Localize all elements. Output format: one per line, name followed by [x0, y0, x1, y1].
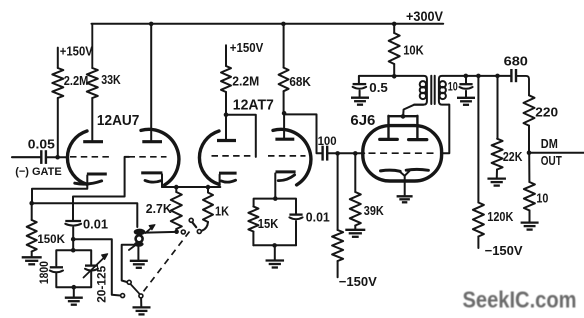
transformer secondary winding	[439, 76, 510, 105]
switch S1a contact right	[197, 230, 201, 234]
wire plate tap to transformer primary	[403, 105, 423, 117]
switch S1b contact upper	[127, 280, 131, 284]
ground under V3 cathode	[397, 195, 413, 197]
svg-text:0.01: 0.01	[83, 218, 108, 232]
node 0.01 bottom branch	[71, 237, 76, 242]
switch S1b arm	[131, 285, 140, 295]
wire 1K bottom to switch contact	[202, 222, 208, 231]
resistor 39K	[354, 153, 356, 192]
node cathode junction 150K	[29, 201, 34, 206]
wire 680 to 220	[516, 76, 529, 95]
node bypass ground junction	[272, 243, 277, 248]
ground under timing loop	[65, 297, 83, 299]
resistor grid return to -150V	[337, 153, 339, 230]
ground under 15K/0.01	[266, 259, 285, 261]
switch S1b pivot	[139, 294, 143, 298]
svg-text:−150V: −150V	[485, 243, 523, 258]
wire plate V2b to 68K	[283, 113, 285, 139]
wire cathode node left to 15K	[254, 199, 276, 207]
wire cap to grid of V1	[47, 156, 69, 158]
switch S1a contact left	[181, 230, 185, 234]
resistor 2.2M plate-grid V2	[225, 45, 227, 66]
resistor 10 output load	[528, 153, 530, 182]
svg-text:10: 10	[536, 191, 548, 206]
capacitor 20-125 variable trimmer	[85, 264, 98, 266]
svg-text:15K: 15K	[258, 216, 279, 231]
plate V2a bar	[217, 139, 236, 142]
wire pot wiper to 2.7K bottom	[142, 231, 177, 234]
wire input (-) gate lead	[12, 156, 40, 158]
node cathode V2b	[273, 196, 278, 201]
svg-text:0.05: 0.05	[28, 138, 55, 152]
wire 10K node left to 0.5 cap	[359, 76, 394, 84]
wire cathode V1a to 150K node	[32, 175, 87, 203]
svg-text:2.2M: 2.2M	[64, 73, 89, 88]
cathode V1a heater hook	[75, 181, 102, 184]
resistor 10K plate supply	[393, 24, 395, 33]
cathode V2a heater hook	[221, 180, 235, 182]
capacitor 0.01 cathode bypass	[289, 213, 302, 215]
node 10K bottom	[392, 74, 397, 79]
node 68K top on +300V rail	[281, 22, 286, 27]
ground under pot	[130, 260, 148, 262]
node plate2 of V1 on +300V rail	[149, 22, 154, 27]
arrow pot wiper	[146, 228, 152, 233]
resistor 150K cathode to ground	[31, 203, 33, 220]
capacitor 0.05 input coupling	[40, 150, 42, 164]
cathode V3 left bar	[381, 170, 401, 171]
svg-text:0.01: 0.01	[306, 210, 330, 224]
svg-text:OUT: OUT	[541, 154, 562, 168]
svg-text:150K: 150K	[37, 232, 65, 246]
resistor 1K cathode bias alt	[207, 187, 209, 193]
svg-text:(−) GATE: (−) GATE	[15, 166, 62, 178]
node 39K	[353, 151, 358, 156]
svg-text:DM: DM	[541, 137, 558, 151]
ground under 10 cap	[457, 97, 475, 99]
wire under pot to switch contact	[122, 245, 136, 282]
wire grid V2a from plate node	[226, 115, 256, 157]
tube V2 12AT7 envelope left arc	[199, 131, 219, 184]
wire plate node to coupling cap	[284, 114, 321, 153]
grid V2b dashed line	[268, 155, 306, 157]
svg-text:+300V: +300V	[406, 9, 443, 24]
svg-text:12AT7: 12AT7	[233, 96, 274, 113]
node input junction with 2.2M	[55, 155, 60, 160]
wire cathode V2b down to 15K node	[274, 173, 276, 198]
grid V1b dashed line	[129, 156, 167, 158]
resistor 68K plate load V2b	[283, 24, 285, 68]
resistor 2.7K cathode bias V1b	[175, 187, 177, 192]
svg-text:1800: 1800	[37, 261, 51, 284]
svg-text:33K: 33K	[101, 72, 121, 87]
transformer primary winding	[394, 76, 427, 105]
tube V1 12AU7 envelope left arc	[67, 131, 87, 184]
capacitor 10 secondary damping	[465, 76, 467, 84]
wire pot lower lead to ground	[137, 246, 139, 260]
svg-text:10: 10	[448, 80, 458, 94]
cathode V1b heater hook	[145, 180, 161, 182]
node 2.2M bottom plate-grid tie	[224, 112, 229, 117]
switch S1a arm	[192, 222, 196, 227]
cathode V2b heater hook	[278, 175, 294, 181]
svg-text:2.2M: 2.2M	[232, 74, 259, 89]
cathode V3 right bar	[406, 168, 428, 172]
wire loop bottom to ground	[73, 287, 75, 296]
wire cathode node to bias pot	[32, 203, 138, 227]
resistor 2.2M grid resistor V1	[57, 48, 59, 68]
wire plate V1b to +300V rail	[150, 24, 152, 140]
node DM OUT junction	[527, 150, 532, 155]
ground under 150K	[22, 256, 42, 258]
potentiometer bias adjust body	[134, 229, 146, 236]
cathode V2b bar	[276, 170, 296, 173]
resistor 15K	[248, 207, 258, 232]
tube V2 12AT7 envelope right arc	[273, 129, 311, 185]
ground under 10 resistor	[521, 221, 539, 223]
svg-text:6J6: 6J6	[350, 112, 375, 129]
cathode V1a bar	[87, 173, 107, 176]
grid V2a dashed line	[212, 155, 251, 157]
node 10K top on +300V rail	[392, 22, 397, 27]
ground under 22K	[487, 177, 506, 179]
wire cathode V1b down to bias rail	[161, 174, 163, 187]
wire secondary bottom to V3 grid	[441, 105, 449, 154]
grid V3 dashed line	[369, 152, 438, 154]
wire grid V1b down lead	[73, 157, 129, 220]
resistor 22K	[497, 76, 499, 139]
capacitor 680 output coupling	[510, 69, 512, 82]
node plate V2b / coupling	[282, 111, 287, 116]
cathode V2a bar	[219, 172, 237, 175]
svg-text:+150V: +150V	[230, 40, 264, 55]
wire junction to ground	[274, 245, 276, 259]
plate V2b bar	[275, 138, 294, 141]
capacitor 0.01 grid timing	[65, 220, 81, 222]
svg-text:22K: 22K	[503, 149, 523, 164]
wire switch pivot to ground	[140, 298, 142, 306]
wire cathode V3 to ground	[404, 176, 406, 195]
cathode V1b bar	[141, 171, 162, 174]
transformer core	[430, 76, 432, 104]
wire pot hook diagonal	[129, 245, 136, 251]
tube V3 6J6 envelope	[363, 126, 442, 181]
capacitor 1800 fixed timing	[50, 266, 63, 268]
ground under switch	[133, 306, 151, 308]
svg-text:20-125: 20-125	[95, 265, 109, 302]
switch S1b contact left	[121, 294, 125, 298]
cathode V3 center vee	[400, 171, 410, 176]
wire timing capacitor loop	[56, 250, 91, 265]
capacitor 0.5 decoupling	[353, 83, 367, 85]
wire plate tie bar	[389, 115, 418, 117]
svg-text:SeekIC.com: SeekIC.com	[463, 286, 577, 312]
wire to V3 grid	[355, 152, 364, 154]
wire cathode V2a down	[219, 175, 221, 187]
svg-text:0.5: 0.5	[369, 80, 388, 95]
node 2.7K bottom	[174, 229, 179, 234]
wire 15K/0.01 bottom rail	[253, 244, 296, 246]
svg-text:10K: 10K	[403, 43, 424, 58]
resistor 120K to -150V	[477, 76, 479, 203]
svg-text:−150V: −150V	[339, 274, 377, 289]
wire DM OUT line	[529, 152, 584, 154]
ground under 39K	[345, 229, 365, 231]
capacitor 100 coupling	[321, 146, 323, 161]
wire cathode bias rail	[162, 186, 220, 188]
plate V3b structure	[409, 138, 427, 141]
node 1K top	[206, 185, 211, 190]
ground under 0.5	[351, 97, 369, 99]
node 120K wire	[476, 74, 481, 79]
svg-text:100: 100	[318, 134, 337, 148]
dashed gang link line	[142, 232, 190, 295]
svg-text:+150V: +150V	[60, 44, 93, 59]
svg-text:220: 220	[535, 104, 558, 119]
plate V1b bar	[142, 140, 162, 143]
node 2.7K top	[174, 185, 179, 190]
svg-text:1K: 1K	[215, 203, 230, 218]
wire to 39K node	[338, 152, 356, 154]
resistor 220	[524, 95, 535, 125]
switch S1a pivot	[189, 218, 193, 222]
node 22K wire	[495, 74, 500, 79]
wire 100 cap to grid node	[328, 152, 337, 154]
node timing loop top	[71, 248, 76, 253]
svg-text:120K: 120K	[487, 209, 514, 224]
grid V1a dashed line	[70, 156, 111, 158]
node plate center tap	[401, 114, 406, 119]
wire branch to range switch	[73, 239, 120, 295]
svg-text:39K: 39K	[364, 203, 385, 218]
node timing loop bottom	[72, 285, 77, 290]
svg-text:680: 680	[504, 54, 528, 69]
resistor 33K plate load V1a	[91, 24, 93, 68]
tube V1 12AU7 envelope right arc	[141, 129, 179, 185]
svg-text:68K: 68K	[289, 74, 311, 89]
plate V1a bar	[83, 140, 103, 143]
wire +300V supply rail	[92, 23, 444, 25]
arrow of variable capacitor	[84, 258, 104, 277]
wire cathode node right to 0.01	[275, 199, 296, 215]
plate V3a structure	[380, 138, 398, 141]
svg-text:2.7K: 2.7K	[146, 201, 173, 216]
svg-text:12AU7: 12AU7	[97, 112, 139, 129]
node grid return resistor	[335, 151, 340, 156]
node 10 cap	[464, 74, 469, 79]
